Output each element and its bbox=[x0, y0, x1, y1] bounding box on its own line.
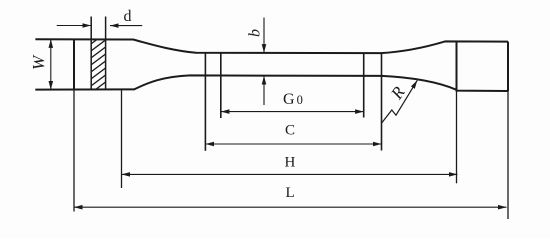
hatched strip right edge bbox=[105, 17, 107, 90]
dimension d right segment bbox=[110, 25, 142, 27]
specimen top edge with shoulders bbox=[35, 39, 508, 53]
extension line: G0 left gauge mark bbox=[220, 53, 222, 118]
svg-text:L: L bbox=[286, 185, 295, 201]
dimension d left segment bbox=[57, 25, 91, 27]
svg-text:H: H bbox=[285, 155, 296, 171]
svg-text:d: d bbox=[124, 8, 132, 25]
leader zigzag for R bbox=[381, 80, 417, 123]
right grip inner edge bbox=[456, 42, 458, 91]
extension line: C left gauge mark bbox=[204, 53, 206, 151]
svg-text:W: W bbox=[29, 54, 48, 70]
hatching bbox=[89, 32, 108, 95]
specimen left end edge bbox=[73, 39, 75, 89]
dimension C line bbox=[205, 143, 381, 145]
dimension G0 line bbox=[221, 111, 364, 113]
dimension W line bbox=[50, 39, 52, 89]
specimen bottom edge with shoulders bbox=[35, 75, 508, 91]
specimen right end edge bbox=[507, 42, 509, 92]
extension line: L right bbox=[507, 91, 509, 219]
dimension b upper arrow bbox=[263, 18, 265, 53]
hatched strip left edge bbox=[90, 17, 92, 90]
extension line: G0 right gauge mark bbox=[363, 53, 365, 117]
extension line: C right gauge mark bbox=[381, 53, 383, 150]
extension line: H right bbox=[456, 91, 458, 184]
svg-text:b: b bbox=[247, 29, 264, 37]
dimension H line bbox=[122, 173, 458, 175]
svg-text:C: C bbox=[285, 123, 295, 139]
dimension L line bbox=[74, 206, 507, 208]
extension line: L left (specimen left edge extended down) bbox=[73, 90, 75, 212]
dimension b lower arrow bbox=[263, 76, 265, 105]
extension line: H left bbox=[121, 90, 123, 189]
svg-text:G0: G0 bbox=[283, 91, 303, 108]
